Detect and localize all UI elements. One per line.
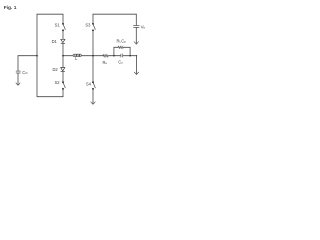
svg-text:Co: Co [118,60,123,65]
svg-text:S3: S3 [85,22,91,27]
svg-text:RLCp: RLCp [117,38,127,43]
svg-text:S1: S1 [55,22,61,27]
svg-text:Fig. 1: Fig. 1 [4,5,17,11]
svg-text:Vb: Vb [141,24,146,29]
svg-text:C∞: C∞ [22,70,28,75]
svg-text:D2: D2 [52,67,58,72]
svg-text:S2: S2 [55,80,61,85]
svg-text:Ro: Ro [102,60,107,65]
svg-text:S4: S4 [86,81,92,86]
svg-text:D1: D1 [52,39,58,44]
